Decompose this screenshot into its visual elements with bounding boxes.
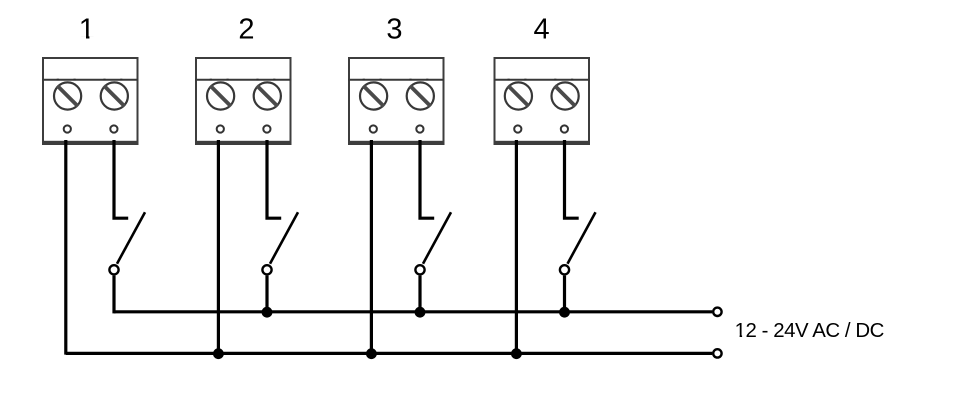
terminal block 1 body xyxy=(42,58,139,145)
top bus wire (switched 12-24V line) xyxy=(114,310,712,313)
wire hole 2.1 xyxy=(217,125,224,132)
wire: block 1 left terminal down to bottom bus xyxy=(64,140,67,355)
switch S4 pivot contact xyxy=(560,265,569,274)
terminal block 3 body xyxy=(348,58,445,145)
wire hole 2.2 xyxy=(263,125,270,132)
mask: arial-style foot removal for digit 1 in supply label xyxy=(735,334,747,338)
wire: block 1 right terminal to switch S1 fixed contact xyxy=(114,140,128,218)
junction: block 3 / bottom bus xyxy=(366,348,377,359)
wire: block 4 right terminal to switch S4 fixed contact xyxy=(565,140,579,218)
wire: block 4 left terminal down to bottom bus xyxy=(515,140,518,353)
divider nubs block 2 xyxy=(210,79,276,81)
svg-text:3: 3 xyxy=(386,14,402,46)
switch S2 pivot contact xyxy=(262,265,271,274)
divider nubs block 1 xyxy=(57,79,123,81)
wire hole 4.2 xyxy=(561,125,568,132)
switch S3 blade xyxy=(423,212,451,264)
screw terminal 1.1 xyxy=(54,82,81,109)
junction: switch S2 / top bus xyxy=(262,307,273,318)
wire: switch S4 down to top bus xyxy=(563,276,566,312)
top bus open terminal xyxy=(713,308,721,316)
screw terminal 4.1 xyxy=(505,82,532,109)
divider nubs block 4 xyxy=(508,79,574,81)
screw terminal 1.2 xyxy=(101,82,128,109)
wire hole 3.2 xyxy=(416,125,423,132)
junction: block 2 / bottom bus xyxy=(213,348,224,359)
screw terminal 2.2 xyxy=(254,82,281,109)
screw terminal 2.1 xyxy=(207,82,234,109)
wire: block 3 right terminal to switch S3 fixed contact xyxy=(420,140,434,218)
screw terminal 3.1 xyxy=(360,82,387,109)
junction: block 4 / bottom bus xyxy=(511,348,522,359)
terminal block 2 body xyxy=(195,58,292,145)
switch S2 blade xyxy=(270,212,298,264)
wire: switch S1 down to top bus xyxy=(112,276,115,314)
switch S4 blade xyxy=(568,212,596,264)
svg-text:2: 2 xyxy=(238,14,254,46)
wire hole 1.1 xyxy=(64,125,71,132)
divider nubs block 3 xyxy=(363,79,429,81)
wire hole 1.2 xyxy=(110,125,117,132)
wire: block 2 left terminal down to bottom bus xyxy=(217,140,220,353)
wire hole 4.1 xyxy=(514,125,521,132)
screw terminal 4.2 xyxy=(552,82,579,109)
bottom bus wire (supply return line) xyxy=(66,352,712,355)
wire hole 3.1 xyxy=(370,125,377,132)
svg-text:4: 4 xyxy=(534,14,550,46)
wire: block 3 left terminal down to bottom bus xyxy=(370,140,373,353)
switch S1 pivot contact xyxy=(109,265,118,274)
switch S1 blade xyxy=(117,212,145,264)
screw terminal 3.2 xyxy=(407,82,434,109)
svg-text:1: 1 xyxy=(79,14,95,46)
switch S3 pivot contact xyxy=(415,265,424,274)
mask: arial-style foot removal for digit 1 label xyxy=(80,36,95,40)
junction: switch S3 / top bus xyxy=(415,307,426,318)
svg-text:12 - 24V AC / DC: 12 - 24V AC / DC xyxy=(735,320,884,342)
junction: switch S4 / top bus xyxy=(559,307,570,318)
bottom bus open terminal xyxy=(713,349,721,357)
wire: block 2 right terminal to switch S2 fixed contact xyxy=(267,140,281,218)
wire: switch S2 down to top bus xyxy=(265,276,268,312)
terminal block 4 body xyxy=(494,58,591,145)
wire: switch S3 down to top bus xyxy=(418,276,421,312)
